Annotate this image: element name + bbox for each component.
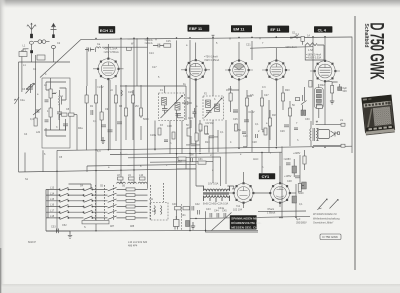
resistor R32 <box>235 124 238 131</box>
svg-text:1.5A: 1.5A <box>308 49 313 52</box>
trimmer C6 <box>33 109 41 116</box>
svg-text:2M: 2M <box>135 105 138 108</box>
wire grid column <box>102 85 142 141</box>
resistor R5 <box>100 112 103 120</box>
wire vertical x147 <box>102 38 148 189</box>
bottom scan shadow <box>0 284 400 293</box>
antenna A1 connector <box>29 41 33 44</box>
extra density parts <box>156 37 298 142</box>
wire V6 bottom lead <box>243 203 245 208</box>
label box EF11 <box>268 26 290 33</box>
antenna A2 connector <box>51 46 55 49</box>
OT winding primary <box>310 121 311 146</box>
wire tube V5 top lead <box>324 37 326 61</box>
TR secondary winding <box>204 196 230 202</box>
resistor R35 <box>172 132 175 139</box>
svg-text:D 750 GWK: D 750 GWK <box>366 23 387 81</box>
IFT F1 leads <box>120 86 186 154</box>
left scan shadow <box>0 0 6 293</box>
junction tick <box>212 35 215 38</box>
wire tube V5 bottom lead <box>324 81 326 125</box>
svg-text:C18a: C18a <box>150 134 157 137</box>
svg-text:=92V 0.65mA: =92V 0.65mA <box>204 59 220 62</box>
padder caps row <box>210 213 226 218</box>
cap C11 <box>91 110 93 115</box>
svg-text:0,1: 0,1 <box>93 120 97 123</box>
cap C16 <box>191 144 196 146</box>
mains fuse <box>296 33 305 41</box>
svg-text:C52: C52 <box>62 224 67 227</box>
detector cap C17 <box>191 158 193 162</box>
svg-text:C26: C26 <box>243 135 248 138</box>
resistor R6 <box>114 95 117 103</box>
IFT F1 cap a <box>162 105 168 114</box>
svg-text:+228V: +228V <box>293 152 301 155</box>
wire tube V3 top lead <box>238 42 240 60</box>
svg-text:L18: L18 <box>50 215 55 218</box>
svg-text:L16: L16 <box>50 204 55 207</box>
wire tube V2 top lead <box>195 43 197 61</box>
svg-text:C27: C27 <box>264 94 269 97</box>
wire heater bus <box>57 146 352 150</box>
wire vertical x300 <box>299 155 301 184</box>
wire note frame top <box>258 210 306 212</box>
electrolytic C29 <box>301 110 303 116</box>
cap C23 <box>192 206 194 211</box>
resistor R19 <box>268 118 271 126</box>
svg-text:R22: R22 <box>320 84 325 87</box>
wire tube V4 top lead <box>275 48 277 60</box>
node AGC bus junctions <box>176 153 177 154</box>
wire aux bus <box>87 164 196 166</box>
antenna A1 <box>27 23 36 38</box>
wire V7 bottom lead <box>279 203 281 207</box>
osc coil windings <box>154 206 162 215</box>
svg-text:50V: 50V <box>343 90 348 93</box>
bottom left page edge <box>0 248 1 293</box>
cap C60 <box>193 108 197 118</box>
svg-text:R20: R20 <box>285 89 290 92</box>
mains plug <box>174 216 180 230</box>
TR primary winding <box>204 186 230 191</box>
svg-text:R19: R19 <box>272 114 277 117</box>
cap C9 <box>108 130 113 132</box>
resistor R9 <box>139 108 142 116</box>
bank top coils L8 L9 L10 <box>69 182 148 189</box>
bank row 6 <box>46 216 148 219</box>
bank row labels <box>50 187 55 219</box>
speaker plug a <box>341 123 345 126</box>
wire antenna junction <box>19 44 71 62</box>
svg-text:C45: C45 <box>222 210 227 213</box>
filter extra wires <box>46 82 66 136</box>
wire top right entry <box>290 36 300 38</box>
svg-text:350/385V: 350/385V <box>296 221 307 224</box>
wire vertical x239 <box>238 80 240 150</box>
bank row 3 <box>46 199 148 202</box>
resistor R30 <box>85 86 88 150</box>
svg-text:0,1: 0,1 <box>199 129 203 132</box>
svg-text:L14: L14 <box>50 192 55 195</box>
cap C63 <box>256 134 258 138</box>
svg-text:=0.3V: =0.3V <box>248 111 255 114</box>
svg-text:C43: C43 <box>206 208 211 211</box>
tick marks top bus <box>156 37 297 41</box>
svg-text:5000: 5000 <box>298 192 304 195</box>
fusible resistor zigzag <box>305 43 324 48</box>
wire fuse drop <box>302 41 304 45</box>
node heater bus junctions <box>95 149 96 150</box>
pointer diagonal <box>212 213 232 231</box>
resistor R7 <box>124 108 127 116</box>
cap C4 <box>57 107 62 119</box>
svg-text:C17: C17 <box>152 66 157 69</box>
sidebar separator rule <box>354 16 356 270</box>
coil label box <box>317 105 323 108</box>
wire vertical x110 <box>109 80 111 150</box>
svg-text:L2b: L2b <box>36 131 41 134</box>
svg-text:=20mA: =20mA <box>145 42 153 45</box>
svg-text:=1.9V: =1.9V <box>97 86 104 89</box>
resistor R31 <box>199 124 202 131</box>
IFT F1 cap b <box>176 114 182 116</box>
tube V2 EBF11 <box>181 59 210 80</box>
svg-text:2M: 2M <box>190 154 193 157</box>
IFT F1 coil a <box>162 98 167 106</box>
svg-text:487: 487 <box>110 225 115 228</box>
resistor R11 <box>187 128 190 136</box>
bank row 1 <box>46 188 148 191</box>
label box CL4 <box>314 26 332 32</box>
OT core <box>313 128 314 141</box>
wire vertical x226 <box>225 120 227 184</box>
svg-text:+105V: +105V <box>284 175 292 178</box>
label box ECH11 <box>99 26 116 33</box>
svg-text:LS: LS <box>340 119 343 122</box>
svg-text:0,5M: 0,5M <box>176 161 182 164</box>
svg-text:0,1: 0,1 <box>296 33 300 36</box>
node top bus junctions <box>95 38 96 39</box>
cap C28 <box>295 176 300 178</box>
resistor R21 <box>288 108 291 116</box>
wires TR leads <box>196 169 234 189</box>
cap C62 <box>242 132 246 134</box>
IFT F1 coil b <box>175 103 180 111</box>
bottom model box <box>320 234 341 240</box>
svg-text:0,1: 0,1 <box>220 131 224 134</box>
speaker box <box>318 130 330 139</box>
wire vertical x213 lower <box>212 120 214 183</box>
resistor R23 <box>331 86 334 94</box>
cap C15 <box>209 136 214 138</box>
svg-text:EF 11: EF 11 <box>270 27 281 32</box>
gang cap C3 <box>28 84 33 93</box>
wire vertical x352 <box>351 37 353 153</box>
cap C34 <box>45 120 49 122</box>
svg-text:1A: 1A <box>307 35 310 38</box>
electrolytic C25 <box>186 221 190 227</box>
svg-text:=20V 0.55mA: =20V 0.55mA <box>104 51 120 54</box>
tube V7 CY1 rectifier <box>270 183 291 204</box>
svg-text:C16: C16 <box>128 91 133 94</box>
svg-text:C42: C42 <box>195 203 200 206</box>
svg-text:488: 488 <box>130 225 135 228</box>
top scan shadow <box>0 0 400 9</box>
coupling coil L1 <box>34 40 50 44</box>
svg-text:6019 P: 6019 P <box>28 241 36 244</box>
wire left vertical <box>18 62 20 172</box>
wire vertical x282 <box>281 146 283 218</box>
svg-text:C31: C31 <box>198 158 203 161</box>
resistor R26 <box>303 156 306 164</box>
mains switch blade right <box>301 87 307 112</box>
cap C14 <box>153 44 164 48</box>
cap C21 <box>284 125 289 127</box>
resistor R23b <box>309 81 312 88</box>
wire V7 right lead <box>290 192 296 194</box>
cap C53 <box>46 229 70 234</box>
wire vertical x134 <box>134 38 137 183</box>
resistor R4 <box>95 95 98 103</box>
node bottom bus junctions <box>56 230 57 231</box>
electrolytic C30 <box>304 110 306 116</box>
wire EM ties <box>231 90 290 153</box>
wire V7 riser <box>279 152 281 183</box>
svg-text:EBF 11: EBF 11 <box>189 26 203 31</box>
svg-text:C21: C21 <box>246 44 251 47</box>
svg-text:C18: C18 <box>167 125 172 128</box>
band filter frame <box>42 78 70 148</box>
wire vertical x213 upper <box>212 38 214 96</box>
wire vertical x262 <box>261 153 263 174</box>
wire lower mid bus <box>190 216 310 218</box>
electrolytic C26 <box>292 166 297 173</box>
cap C32 <box>286 163 291 165</box>
resistor ladder R22 <box>315 88 324 109</box>
detector resistor R15 <box>198 161 206 164</box>
cap C10 <box>117 122 122 124</box>
OT winding secondary <box>317 129 319 141</box>
svg-text:C28: C28 <box>252 141 257 144</box>
wire vertical x252 <box>251 41 253 60</box>
wires under tube2 <box>191 120 209 153</box>
svg-text:5000: 5000 <box>143 118 149 121</box>
svg-text:CL 4: CL 4 <box>318 27 327 32</box>
cap C64 <box>294 128 298 130</box>
electrolytic C31 <box>292 196 297 203</box>
bank gang dashed columns <box>96 183 164 221</box>
label box CY1 <box>259 173 275 179</box>
IFT F2 frame <box>203 96 224 120</box>
svg-text:C48: C48 <box>287 180 292 183</box>
resistor R26b <box>295 98 299 101</box>
resistor R34 <box>158 128 161 135</box>
ground G5 <box>330 101 334 105</box>
wires EM cluster <box>231 86 252 152</box>
svg-text:102 104: 102 104 <box>233 208 243 211</box>
gang dashed tail <box>181 204 183 230</box>
svg-text:C19: C19 <box>188 117 193 120</box>
antenna A1 terminal <box>30 34 33 38</box>
bank left rail <box>46 189 48 231</box>
wire det ties <box>177 130 219 169</box>
svg-text:Gezeichnet „Mitte": Gezeichnet „Mitte" <box>313 222 334 225</box>
cap C19 <box>244 120 249 122</box>
bank row 5 <box>46 210 148 213</box>
wire V6 top lead <box>243 172 245 183</box>
resistor R2 <box>49 108 52 117</box>
wire vertical x205 <box>206 211 259 232</box>
antenna A2 mast <box>51 23 57 37</box>
ground G1 <box>101 137 105 144</box>
svg-text:0,1: 0,1 <box>299 203 303 206</box>
antenna A1 plug <box>30 50 33 53</box>
resistor R3 <box>34 118 37 126</box>
cap C20 <box>262 130 267 132</box>
IFT F2 arrow <box>205 98 223 118</box>
svg-text:RÖHRENVOLTM. GE-: RÖHRENVOLTM. GE- <box>231 220 261 225</box>
label box EM11 <box>231 25 252 32</box>
resistor R8 <box>131 95 134 103</box>
svg-text:L11: L11 <box>149 198 154 201</box>
cap C18 <box>233 110 238 112</box>
resistor R25 <box>183 207 190 210</box>
svg-text:R4a: R4a <box>78 127 83 130</box>
svg-text:=4.85V 0.53A: =4.85V 0.53A <box>306 57 322 60</box>
svg-text:C44: C44 <box>214 210 219 213</box>
tube V6 rectifier <box>233 183 254 204</box>
IFT F1 arrow <box>161 96 183 119</box>
osc coil box <box>150 203 168 221</box>
wire vertical x57 <box>56 150 58 231</box>
resistor R18 <box>260 98 263 106</box>
OT label tick <box>316 121 318 123</box>
wire tube V1 top lead <box>107 44 109 59</box>
svg-text:L17: L17 <box>50 209 55 212</box>
svg-text:0.3: 0.3 <box>262 86 266 89</box>
svg-text:1M: 1M <box>226 89 229 92</box>
wire chassis bus <box>19 169 197 172</box>
svg-text:0,1: 0,1 <box>255 123 259 126</box>
node chassis junctions <box>56 171 57 172</box>
resistor R28 <box>298 184 301 192</box>
svg-text:0,4: 0,4 <box>30 118 34 121</box>
IFT F2 cap a <box>206 111 212 113</box>
coil L3 <box>59 96 62 105</box>
pointer arrows <box>317 199 338 210</box>
wire top supply bus <box>81 37 352 39</box>
cap C12 <box>85 48 94 52</box>
bank bottom slider <box>82 221 109 224</box>
resistor R13 <box>205 126 208 134</box>
wire tube V1 bottom lead <box>107 79 109 150</box>
svg-text:C40: C40 <box>172 203 177 206</box>
svg-text:C29: C29 <box>280 130 285 133</box>
svg-text:L13: L13 <box>50 187 55 190</box>
speaker cone <box>331 131 340 137</box>
svg-text:EM 11: EM 11 <box>233 27 245 32</box>
wire vertical x313 <box>312 38 314 126</box>
svg-text:R13: R13 <box>205 141 210 144</box>
svg-text:0,5: 0,5 <box>250 94 254 97</box>
bank row 4 <box>46 205 148 208</box>
switch S1a <box>26 83 33 90</box>
wire vertical x35 <box>35 55 37 126</box>
wires V4 cluster <box>262 86 290 140</box>
wire V7 top lead <box>279 166 281 183</box>
resistor R20 <box>281 93 284 101</box>
svg-text:D 750 GWK: D 750 GWK <box>323 235 338 239</box>
resistor R1 <box>49 89 52 98</box>
cap C8 <box>101 125 106 127</box>
resistor R27 <box>126 47 131 50</box>
resistor R33 <box>264 128 267 135</box>
electrolytic C22 <box>338 87 342 91</box>
svg-text:L10: L10 <box>139 174 144 177</box>
ground G3 <box>191 222 195 229</box>
svg-text:1 Block: 1 Block <box>267 211 276 214</box>
bank row 2 <box>46 193 148 196</box>
svg-text:C2a: C2a <box>20 99 25 102</box>
svg-text:486 4P4: 486 4P4 <box>128 244 138 247</box>
tuning arrow <box>26 84 35 94</box>
wire vertical x96 <box>95 79 97 231</box>
resistor R10 <box>164 44 171 47</box>
wire V6 V7 link <box>253 192 270 194</box>
wire screen bus <box>128 157 221 186</box>
svg-text:=228V: =228V <box>284 158 292 161</box>
wire vertical x196 <box>195 80 197 169</box>
svg-text:C15: C15 <box>166 40 171 43</box>
input coil box K2 <box>37 55 45 60</box>
wire AGC bus <box>110 152 282 154</box>
svg-text:AGC: AGC <box>253 158 259 161</box>
svg-text:=87V 8mA: =87V 8mA <box>285 46 297 49</box>
coil labels <box>117 174 144 177</box>
cap C61 <box>182 101 192 105</box>
cap C24 <box>198 210 200 215</box>
wire vertical x296 <box>295 184 297 218</box>
ground G2 <box>68 231 72 238</box>
cap C65 <box>164 140 168 142</box>
wire left stubs <box>25 150 87 172</box>
tube V5 CL4 <box>310 60 340 82</box>
tube V1 ECH11 <box>93 58 124 80</box>
svg-text:C41: C41 <box>181 214 186 217</box>
wires filter internals <box>44 78 66 130</box>
IFT F1 frame <box>159 93 185 121</box>
svg-text:ECH 11: ECH 11 <box>100 28 114 33</box>
coil L5 <box>96 47 102 52</box>
antenna A2 terminal <box>52 34 55 38</box>
wire mains box left <box>305 47 324 60</box>
svg-text:W=10Ω/h=10Ω/km M: W=10Ω/h=10Ω/km M <box>313 213 336 216</box>
wire bottom bus <box>46 229 258 232</box>
wire vertical x190 <box>189 40 191 231</box>
svg-text:B+B C2+B2+C2A 0.3A: B+B C2+B2+C2A 0.3A <box>203 203 229 206</box>
svg-text:L12: L12 <box>152 210 157 213</box>
svg-text:C53: C53 <box>51 226 56 229</box>
resistor R24 <box>175 207 182 210</box>
svg-text:CY1: CY1 <box>262 174 270 179</box>
svg-text:MESSEN GEG. CH.: MESSEN GEG. CH. <box>231 226 258 230</box>
svg-text:6,3: 6,3 <box>97 150 101 153</box>
wire tube V2 bottom lead <box>195 80 197 153</box>
svg-text:C25: C25 <box>233 118 238 121</box>
svg-text:1M: 1M <box>210 122 213 125</box>
wires V5 cluster <box>319 81 340 118</box>
resistor R16 <box>229 93 232 101</box>
